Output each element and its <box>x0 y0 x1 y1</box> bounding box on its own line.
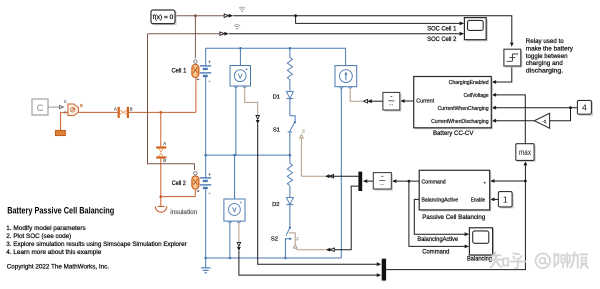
svg-text:BalancingActive: BalancingActive <box>417 236 458 243</box>
svg-text:max: max <box>519 148 531 157</box>
svg-text:-1: -1 <box>542 119 547 125</box>
svg-text:Current: Current <box>416 99 434 105</box>
svg-text:D1: D1 <box>273 94 280 100</box>
svg-text:Command: Command <box>422 180 446 186</box>
svg-text:A: A <box>114 106 117 111</box>
svg-text:S: S <box>64 99 67 104</box>
svg-text:f(x) = 0: f(x) = 0 <box>153 14 174 21</box>
svg-text:1: 1 <box>503 194 508 204</box>
svg-text:Copyright 2022 The MathWorks,: Copyright 2022 The MathWorks, Inc. <box>7 263 110 270</box>
svg-text:Relay used to: Relay used to <box>526 38 564 45</box>
svg-text:Balancing: Balancing <box>467 256 492 263</box>
svg-text:1. Modify model parameters: 1. Modify model parameters <box>6 225 85 232</box>
svg-text:ChargingEnabled: ChargingEnabled <box>449 80 489 86</box>
svg-text:4. Learn more about this examp: 4. Learn more about this example <box>6 249 101 256</box>
svg-text:BalancingActive: BalancingActive <box>422 197 459 203</box>
svg-text:C: C <box>37 103 44 113</box>
svg-text:insulation: insulation <box>170 209 198 216</box>
svg-text:Enable: Enable <box>471 197 485 203</box>
svg-text:+: + <box>208 172 211 177</box>
svg-text:CurrentWhenCharging: CurrentWhenCharging <box>438 106 489 112</box>
svg-text:Cell 2: Cell 2 <box>172 180 187 187</box>
svg-text:4: 4 <box>582 102 587 112</box>
svg-text:A: A <box>163 141 166 146</box>
svg-text:D2: D2 <box>272 202 279 208</box>
svg-text:B: B <box>80 103 83 108</box>
svg-text:discharging.: discharging. <box>526 68 564 75</box>
svg-text:Battery CC-CV: Battery CC-CV <box>433 130 474 137</box>
svg-text:toggle between: toggle between <box>526 53 568 60</box>
svg-text:Battery Passive Cell Balancing: Battery Passive Cell Balancing <box>7 206 114 216</box>
svg-text:Passive Cell Balancing: Passive Cell Balancing <box>422 214 485 221</box>
svg-text:make the battery: make the battery <box>526 45 574 52</box>
svg-text:SOC Cell 1: SOC Cell 1 <box>427 26 457 33</box>
svg-text:▾: ▾ <box>484 180 486 185</box>
svg-text:Command: Command <box>422 248 450 255</box>
svg-text:S2: S2 <box>271 236 278 242</box>
svg-text:2. Plot SOC (see code): 2. Plot SOC (see code) <box>6 233 71 240</box>
svg-text:V: V <box>238 73 243 80</box>
svg-text:S1: S1 <box>273 127 280 133</box>
svg-text:charging and: charging and <box>526 60 563 67</box>
svg-text:+: + <box>208 60 211 65</box>
svg-text:B: B <box>130 106 133 111</box>
svg-text:V: V <box>232 207 237 214</box>
svg-text:3. Explore simulation results: 3. Explore simulation results using Sims… <box>6 241 187 248</box>
svg-text:B: B <box>163 158 166 163</box>
svg-text:Cell 1: Cell 1 <box>172 68 187 75</box>
svg-text:CellVoltage: CellVoltage <box>464 93 489 99</box>
svg-text:SOC Cell 2: SOC Cell 2 <box>427 36 457 43</box>
svg-text:CurrentWhenDischarging: CurrentWhenDischarging <box>431 119 489 125</box>
